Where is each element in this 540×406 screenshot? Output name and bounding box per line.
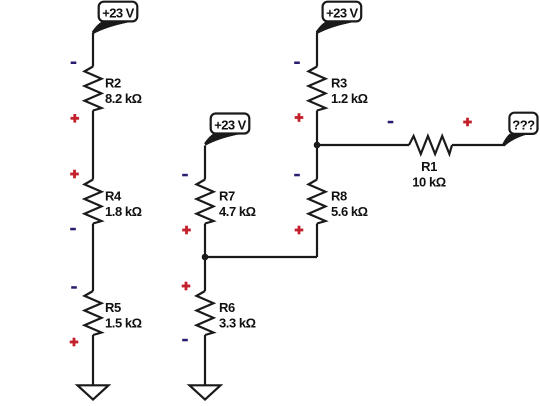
svg-text:3.3 kΩ: 3.3 kΩ <box>219 316 256 331</box>
svg-text:1.8 kΩ: 1.8 kΩ <box>105 204 142 219</box>
svg-text:R4: R4 <box>105 189 122 204</box>
svg-text:4.7 kΩ: 4.7 kΩ <box>219 204 256 219</box>
svg-text:8.2 kΩ: 8.2 kΩ <box>105 91 142 106</box>
svg-text:R1: R1 <box>421 159 437 174</box>
svg-text:R5: R5 <box>105 300 121 315</box>
svg-text:10 kΩ: 10 kΩ <box>412 174 446 189</box>
svg-text:+23 V: +23 V <box>102 6 134 21</box>
svg-text:+23 V: +23 V <box>214 118 246 133</box>
svg-text:+23 V: +23 V <box>326 6 358 21</box>
svg-text:1.5 kΩ: 1.5 kΩ <box>105 316 142 331</box>
svg-text:R6: R6 <box>219 300 235 315</box>
svg-text:R7: R7 <box>219 189 235 204</box>
svg-text:R3: R3 <box>331 76 347 91</box>
svg-text:R2: R2 <box>105 76 121 91</box>
svg-text:1.2 kΩ: 1.2 kΩ <box>331 91 368 106</box>
svg-text:R8: R8 <box>331 189 347 204</box>
svg-text:???: ??? <box>512 117 535 132</box>
svg-text:5.6 kΩ: 5.6 kΩ <box>331 204 368 219</box>
